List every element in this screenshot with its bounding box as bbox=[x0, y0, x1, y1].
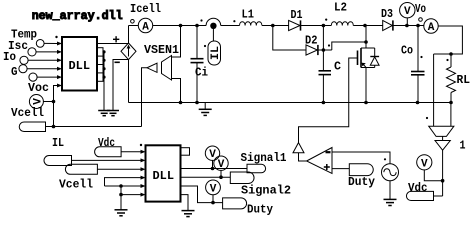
svg-text:V: V bbox=[421, 158, 428, 170]
wire L1 to node N2 bbox=[262, 25, 289, 27]
inductor L1 bbox=[240, 22, 262, 26]
DLL block U2 bbox=[146, 145, 181, 201]
svg-text:Co: Co bbox=[401, 44, 413, 58]
body diode Q1 bbox=[374, 48, 376, 57]
wire N3 down to C bbox=[322, 26, 324, 71]
ammeter A1 bbox=[129, 25, 139, 27]
probe Vo bbox=[400, 3, 415, 18]
polarity dot VSIN bbox=[384, 158, 386, 160]
svg-text:G: G bbox=[11, 65, 18, 79]
svg-text:L2: L2 bbox=[334, 1, 347, 15]
wire diamond bottom to rail bbox=[128, 60, 130, 103]
wire U2 out6 to ground bbox=[181, 195, 189, 211]
junction at x53.5 y126.5 bbox=[52, 125, 56, 129]
diode D1 bbox=[289, 20, 300, 30]
wire sensor to L1 bbox=[221, 25, 240, 27]
probe V1 bbox=[212, 160, 214, 168]
svg-text:Vcell: Vcell bbox=[11, 106, 44, 120]
source VSIN carrier bbox=[382, 164, 399, 181]
wire Temp to U1 bbox=[44, 42, 57, 44]
wire VSIN to ground bbox=[389, 181, 391, 200]
svg-text:C: C bbox=[334, 60, 341, 74]
net label Signal1 bbox=[247, 164, 266, 173]
wire gain to Vdc node bbox=[442, 150, 444, 196]
wire U2 input5 bbox=[105, 185, 141, 187]
wire D3 to Vo node bbox=[393, 25, 424, 27]
svg-text:Icell: Icell bbox=[130, 2, 161, 16]
net label Vcell stadium bbox=[19, 122, 45, 132]
current sensor IL hump bbox=[206, 18, 221, 25]
wire VSEN1 top input bbox=[172, 26, 181, 58]
junction Ci bottom bbox=[195, 101, 199, 105]
MOSFET arrow bbox=[363, 65, 366, 68]
capacitor C bbox=[319, 70, 332, 72]
junction Ci top bbox=[195, 24, 199, 28]
wire U2 out4 to Signal2 bbox=[181, 176, 231, 178]
inductor L2 bbox=[331, 22, 353, 26]
probe Vdc bbox=[424, 170, 442, 181]
junction C bottom bbox=[322, 101, 326, 105]
diode D3 bbox=[383, 20, 393, 30]
ground G1 bbox=[98, 110, 110, 112]
wire VSEN1 output down bbox=[142, 68, 148, 127]
net label Vdc input stadium bbox=[95, 147, 122, 157]
DLL block U1 bbox=[62, 37, 97, 91]
junction at x53.5 y101.5 bbox=[52, 100, 56, 104]
sensor body IL (rotated label) bbox=[208, 41, 221, 65]
wire inputs to ground bbox=[120, 186, 122, 210]
wire minus to ground bbox=[113, 60, 129, 111]
svg-text:Duty: Duty bbox=[247, 203, 273, 217]
wire tabs to ground bbox=[103, 52, 105, 111]
wire Io to U1 bbox=[28, 59, 57, 61]
net label IL input stadium bbox=[44, 156, 72, 166]
junction N2 bbox=[271, 24, 275, 28]
svg-text:V: V bbox=[210, 183, 217, 195]
gain block 1 bbox=[442, 136, 444, 140]
svg-text:RL: RL bbox=[457, 73, 471, 87]
probe V2 bbox=[220, 170, 222, 177]
svg-text:DLL: DLL bbox=[153, 169, 175, 183]
svg-text:V: V bbox=[32, 98, 44, 105]
junction VSEN1 bottom bbox=[179, 101, 183, 105]
wire A1 to sensor bbox=[153, 25, 207, 27]
net label Vcell input stadium bbox=[65, 164, 97, 174]
svg-text:DLL: DLL bbox=[69, 59, 91, 73]
node Voc bbox=[29, 73, 37, 81]
svg-text:new_array.dll: new_array.dll bbox=[32, 9, 123, 23]
svg-text:A: A bbox=[428, 22, 435, 34]
probe V3 bbox=[212, 195, 214, 203]
net label Signal2 bbox=[230, 172, 254, 184]
on-off controller bbox=[293, 143, 304, 153]
svg-text:L1: L1 bbox=[242, 8, 255, 22]
svg-text:Ci: Ci bbox=[195, 66, 208, 80]
wire stadium to Vdc node bbox=[434, 195, 443, 197]
svg-text:D1: D1 bbox=[291, 8, 303, 22]
U1 right tabs (unused pins) bbox=[97, 48, 103, 82]
svg-text:Signal1: Signal1 bbox=[241, 151, 287, 165]
wire L2 to D3 bbox=[353, 25, 382, 27]
wire VSEN1 bottom input bbox=[172, 79, 181, 103]
MOSFET Q1 bbox=[357, 51, 359, 66]
junction Co top bbox=[416, 24, 420, 28]
wire gate bbox=[299, 58, 358, 143]
svg-text:Duty: Duty bbox=[348, 175, 375, 189]
capacitor Co bbox=[417, 26, 419, 72]
junction V3 bbox=[211, 201, 215, 205]
polarity dot L1 bbox=[233, 20, 235, 22]
U2 tab bbox=[181, 148, 190, 156]
ground G5 bbox=[182, 210, 195, 212]
wire drain link bbox=[332, 42, 366, 50]
ammeter A2 bbox=[424, 19, 438, 33]
ground G2 bbox=[107, 110, 119, 112]
pin1 dot U1 bbox=[55, 36, 57, 38]
wire Vcell feedback to U1 input 6 bbox=[54, 86, 58, 127]
resistor RL bbox=[450, 54, 452, 67]
wire N2 down to D2 bbox=[273, 26, 306, 51]
capacitor Ci bbox=[196, 26, 198, 59]
svg-text:1: 1 bbox=[460, 139, 466, 153]
svg-text:Vdc: Vdc bbox=[408, 181, 428, 195]
junction RL top bbox=[449, 52, 453, 56]
wire Vcell bus y126.5 bbox=[54, 126, 142, 128]
current flag A2 bbox=[419, 18, 423, 22]
polarity dot sensor bbox=[426, 117, 428, 119]
comparator U3 bbox=[307, 148, 332, 174]
svg-text:D3: D3 bbox=[381, 7, 393, 21]
net label Duty (comparator input) bbox=[349, 164, 373, 176]
svg-text:IL: IL bbox=[210, 46, 222, 60]
wire Voc to U1 bbox=[37, 76, 57, 78]
junction N3 bbox=[322, 24, 326, 28]
svg-text:VSEN1: VSEN1 bbox=[144, 43, 179, 57]
junction input5 bbox=[119, 184, 123, 188]
svg-text:Io: Io bbox=[3, 50, 16, 64]
ground G4 bbox=[115, 209, 128, 211]
wire probe to node bbox=[43, 101, 53, 103]
junction VSEN1 top bbox=[179, 24, 183, 28]
wire stadium to junction bbox=[46, 126, 54, 128]
wire source to rail bbox=[365, 68, 367, 103]
node G bbox=[19, 65, 27, 73]
junction input6 bbox=[119, 193, 123, 197]
svg-text:Vdc: Vdc bbox=[98, 136, 115, 150]
junction V2 bbox=[219, 175, 223, 179]
junction V1 bbox=[211, 167, 215, 171]
polarity dot Ci bbox=[200, 19, 202, 21]
net label Vdc stadium bbox=[406, 191, 433, 200]
pin1 dot U2 bbox=[140, 144, 142, 146]
svg-text:A: A bbox=[142, 21, 149, 33]
svg-text:Vo: Vo bbox=[415, 2, 426, 16]
ground G6 bbox=[384, 198, 397, 200]
wire U2 input4 bbox=[105, 178, 141, 186]
svg-text:V: V bbox=[218, 159, 225, 171]
polarity dot L2 bbox=[325, 19, 327, 21]
wire D1 to N3 bbox=[301, 25, 332, 27]
svg-text:V: V bbox=[404, 6, 411, 18]
polarity dot IL sensor bbox=[204, 45, 206, 47]
wire U2 out3 to Signal1 bbox=[181, 168, 248, 170]
wire U2 out5 to Duty bbox=[181, 186, 223, 203]
wire comparator plus to Duty bbox=[332, 168, 349, 170]
bottom rail bbox=[129, 102, 452, 104]
tab junction dots bbox=[102, 50, 105, 53]
label plus terminal bbox=[113, 38, 119, 40]
wire diamond top up bbox=[128, 26, 130, 44]
polarity dot RL bbox=[446, 59, 448, 61]
svg-text:Signal2: Signal2 bbox=[241, 184, 291, 198]
wire D2 to drain link bbox=[318, 49, 332, 51]
wire comparator minus to carrier bbox=[332, 152, 390, 164]
wire Vdc to U2 bbox=[121, 151, 140, 153]
svg-text:Voc: Voc bbox=[28, 81, 49, 95]
junction N4 bbox=[363, 24, 367, 28]
junction drain bbox=[364, 40, 368, 44]
probe Vcell (rotated V) bbox=[29, 95, 43, 109]
label minus terminal bbox=[115, 61, 120, 63]
wire A2 to load branch bbox=[434, 26, 463, 54]
wire U1 out to source bbox=[97, 43, 129, 45]
node Isc bbox=[28, 48, 36, 56]
polarity dot C bbox=[328, 44, 330, 46]
current flag bbox=[131, 20, 135, 24]
current source Icell diamond bbox=[121, 43, 136, 60]
svg-text:IL: IL bbox=[52, 136, 64, 150]
wire Isc to U1 bbox=[36, 51, 57, 53]
voltage sensor VSEN1 bbox=[162, 56, 172, 81]
junction D2 cathode bbox=[322, 48, 326, 52]
ground G3 bbox=[204, 103, 206, 110]
wire IL to U2 bbox=[72, 159, 141, 161]
polarity dot Co bbox=[420, 56, 422, 58]
wire U2 input6 bbox=[121, 194, 141, 196]
svg-text:Vcell: Vcell bbox=[59, 178, 93, 192]
wire N4 to drain bbox=[365, 26, 367, 43]
net label Duty output bbox=[223, 198, 247, 209]
node Io bbox=[20, 56, 28, 64]
node Temp bbox=[36, 40, 44, 48]
wire Vcell to U2 bbox=[97, 168, 140, 170]
diode D2 bbox=[306, 45, 317, 55]
wire G to U1 bbox=[27, 68, 57, 70]
output voltage sensor bbox=[433, 54, 435, 126]
